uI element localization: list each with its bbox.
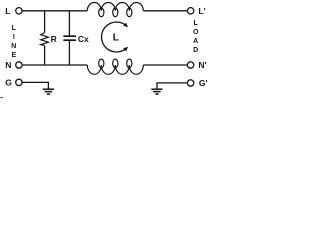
svg-text:I: I (13, 34, 15, 41)
svg-text:L: L (194, 20, 199, 27)
terminal G' (187, 80, 193, 86)
terminal N (16, 62, 22, 68)
terminal G (16, 79, 22, 85)
bottom-left rgb artifact (0, 97, 1, 99)
choke winding top (L line) (87, 3, 143, 11)
arrowhead bottom (123, 47, 128, 52)
arrowhead top (123, 23, 128, 28)
svg-text:D: D (193, 47, 198, 54)
svg-text:A: A (193, 38, 198, 45)
svg-text:G': G' (199, 78, 208, 88)
ground (right) (151, 88, 162, 90)
wire choke to L' (143, 10, 187, 12)
terminal L' (187, 8, 193, 14)
svg-text:L: L (12, 25, 17, 32)
wire ground stem to G' (157, 83, 187, 89)
resistor R zigzag (41, 33, 49, 46)
ground (left) (43, 88, 54, 90)
terminal N' (187, 62, 193, 68)
svg-text:Cx: Cx (78, 34, 89, 44)
svg-text:R: R (51, 34, 57, 44)
svg-text:G: G (5, 77, 12, 87)
coupling arrow arc top (102, 22, 127, 37)
svg-text:L': L' (198, 6, 205, 16)
wire choke to N' (143, 64, 187, 66)
wire L to choke (22, 10, 87, 12)
capacitor Cx leads (68, 11, 70, 65)
svg-text:N': N' (198, 60, 206, 70)
resistor R leads (44, 11, 46, 65)
wire G to ground stem (22, 82, 48, 89)
coupling arrow arc bottom (101, 37, 126, 52)
wire N to choke (22, 64, 87, 66)
svg-text:L: L (5, 6, 10, 16)
capacitor Cx plates (63, 35, 76, 37)
svg-text:E: E (11, 52, 16, 59)
svg-text:N: N (5, 60, 11, 70)
svg-text:O: O (193, 29, 199, 36)
svg-text:N: N (11, 43, 16, 50)
terminal L (16, 8, 22, 14)
svg-text:L: L (113, 33, 119, 44)
choke winding bottom (N line) (87, 65, 143, 74)
